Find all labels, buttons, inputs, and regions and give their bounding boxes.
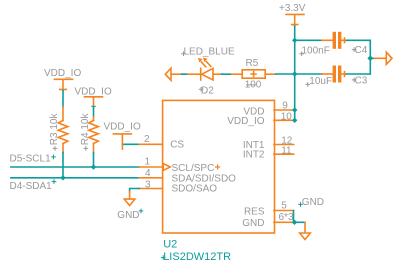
node junction res/gnd: [292, 220, 297, 225]
wire C3 row left: [295, 73, 322, 75]
svg-text:VDD_IO: VDD_IO: [44, 68, 81, 79]
svg-text:4: 4: [145, 168, 151, 179]
svg-text:GND: GND: [117, 210, 139, 221]
off-page connector arrow right: [386, 52, 392, 64]
wire arrow stub: [171, 73, 181, 75]
svg-text:100nF: 100nF: [302, 45, 330, 56]
svg-text:INT2: INT2: [243, 150, 265, 161]
svg-text:U2: U2: [163, 239, 177, 251]
svg-text:C3: C3: [355, 76, 368, 87]
wire pin3 to gnd: [130, 189, 140, 192]
node junction R4/SCL: [91, 164, 96, 169]
svg-text:VDD_IO: VDD_IO: [75, 87, 112, 98]
wire VDD_IO to R3: [62, 91, 64, 107]
svg-text:11: 11: [281, 145, 292, 156]
svg-text:VDD_IO: VDD_IO: [104, 121, 141, 132]
svg-text:R5: R5: [246, 58, 259, 69]
node junction at C3/R5 row on rail: [292, 71, 297, 76]
svg-text:LED_BLUE: LED_BLUE: [184, 46, 235, 57]
svg-text:GND: GND: [302, 197, 324, 208]
svg-text:1: 1: [145, 156, 151, 167]
svg-text:LIS2DW12TR: LIS2DW12TR: [163, 251, 231, 263]
LED D2: [181, 46, 235, 96]
pin 3 SDO/SAO: [139, 179, 217, 194]
resistor R3: [49, 107, 68, 153]
svg-text:10uF: 10uF: [309, 76, 332, 87]
pin 9 VDD: [243, 100, 293, 117]
wire R5 to rail: [276, 73, 295, 75]
svg-text:R4 10k: R4 10k: [80, 113, 91, 146]
capacitor C3: [305, 66, 367, 87]
wire C3 right to right rail: [346, 73, 370, 75]
wire C4 right to right rail: [346, 40, 370, 74]
ground (right): [298, 197, 324, 239]
pin 5 RES: [244, 200, 294, 217]
wire LED left: [182, 73, 189, 75]
pin 2 CS: [122, 134, 184, 150]
svg-text:3: 3: [145, 179, 151, 190]
svg-text:SDO/SAO: SDO/SAO: [172, 184, 218, 195]
svg-text:+3.3V: +3.3V: [279, 3, 306, 14]
pin 11 INT2: [243, 145, 294, 160]
node junction at C4 row on rail: [292, 38, 297, 43]
emission arrows: [201, 62, 206, 67]
off-page connector arrow left (LED net): [165, 68, 171, 80]
svg-text:9: 9: [282, 100, 288, 111]
resistor R5: [232, 58, 276, 91]
IC U2 reference labels: [161, 239, 231, 263]
power +3.3V symbol: [279, 3, 306, 26]
power VDD_IO (R3): [44, 68, 81, 91]
svg-text:2: 2: [144, 134, 150, 145]
wire C4 row left: [295, 39, 322, 41]
svg-text:VDD_IO: VDD_IO: [227, 116, 264, 127]
pin 1 SCL/SPC: [139, 156, 220, 174]
wire RES to GND pin: [294, 211, 306, 223]
ground (left): [117, 192, 143, 221]
svg-text:5: 5: [281, 200, 287, 211]
svg-text:D2: D2: [201, 85, 214, 96]
node junction arrow tap: [367, 55, 373, 61]
power VDD_IO (CS pull): [104, 121, 141, 149]
svg-text:6*3: 6*3: [279, 212, 294, 223]
svg-text:10: 10: [281, 112, 293, 123]
svg-text:D4-SDA1: D4-SDA1: [10, 181, 53, 192]
IC U2 body: [163, 100, 275, 233]
wire R3 to SDA: [62, 153, 64, 178]
node junction pin9/rail: [292, 107, 297, 112]
pin 10 VDD_IO: [227, 112, 293, 127]
wire +3.3V vertical rail: [294, 26, 296, 120]
svg-text:C4: C4: [355, 45, 368, 56]
pin 6*3 GND: [242, 212, 294, 229]
svg-text:RES: RES: [244, 206, 265, 217]
pin 12 INT1: [243, 136, 294, 152]
pin 4 SDA/SDI/SDO: [139, 168, 236, 184]
svg-text:R3 10k: R3 10k: [49, 113, 60, 146]
capacitor C4: [299, 32, 367, 57]
node junction pin10/rail end: [292, 118, 297, 123]
resistor R4: [80, 113, 98, 153]
wire D4-SDA1: [11, 177, 139, 179]
power VDD_IO (R4): [75, 87, 112, 108]
svg-text:CS: CS: [170, 139, 184, 150]
wire LED to R5: [222, 73, 232, 75]
svg-text:SCL/SPC: SCL/SPC: [172, 163, 215, 174]
wire to off-page arrow: [370, 57, 374, 59]
wire D5-SCL1: [11, 166, 139, 168]
node junction R3/SDA: [60, 175, 65, 180]
svg-text:GND: GND: [242, 218, 264, 229]
svg-text:D5-SCL1: D5-SCL1: [10, 153, 52, 164]
wire VDD_IO to R4: [93, 107, 95, 117]
wire R4 to SCL: [93, 153, 95, 168]
